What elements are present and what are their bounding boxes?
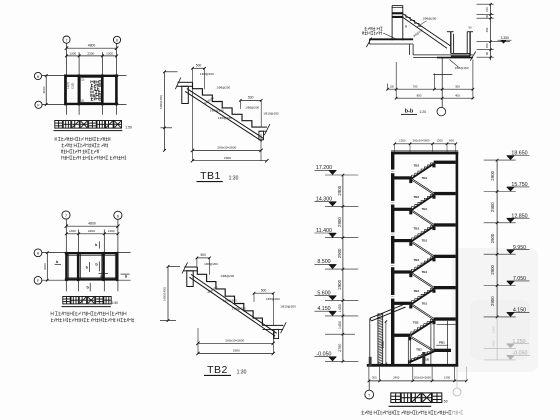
elevation marker 8.500 (left) bbox=[325, 268, 358, 270]
svg-text:4.150: 4.150 bbox=[513, 308, 526, 314]
b-b bottom dimension line 1 bbox=[388, 88, 473, 90]
floor slab level 5 bbox=[394, 302, 412, 305]
stair flight up (cut) level 1 bbox=[411, 163, 434, 180]
b-b right dimension chain bbox=[490, 4, 492, 61]
svg-text:260x10=2600: 260x10=2600 bbox=[217, 146, 236, 150]
svg-text:50: 50 bbox=[485, 14, 489, 17]
floor edge beam level 1 bbox=[409, 180, 412, 184]
grid line inner vertical a bbox=[78, 52, 80, 115]
TB2 bottom dimension 260x10=2600 bbox=[198, 342, 273, 344]
elevation marker 9.950 (right) bbox=[484, 253, 516, 255]
rebar label block (top plan middle cell, rotated text) bbox=[91, 80, 101, 83]
landing edge beam level 1 bbox=[432, 164, 435, 168]
svg-text:500: 500 bbox=[200, 253, 206, 257]
grid bubble H (top plan) bbox=[34, 72, 41, 79]
TB1 top landing slab bbox=[178, 81, 193, 83]
svg-text:2900: 2900 bbox=[381, 341, 385, 348]
TB1 top hanging beam bbox=[182, 86, 189, 103]
left wall window gap bbox=[391, 264, 395, 268]
grid inner vertical a (bottom plan) bbox=[78, 230, 80, 292]
svg-text:1Φ8@200: 1Φ8@200 bbox=[200, 72, 214, 76]
elevation marker 1.250 (right, faint) bbox=[484, 347, 516, 349]
dimension 4800 (bottom plan) bbox=[66, 225, 118, 227]
svg-text:260x10=2600: 260x10=2600 bbox=[413, 139, 430, 143]
TB1 left vertical dimension bbox=[164, 72, 166, 151]
b-b gutter channel bbox=[450, 32, 452, 54]
svg-text:6: 6 bbox=[117, 214, 119, 218]
grid bubble 7 (top plan, axis 7) bbox=[63, 36, 70, 43]
notes under bottom plan (2 lines) bbox=[51, 312, 126, 316]
svg-text:2900: 2900 bbox=[337, 248, 342, 258]
b-b lower slab bbox=[413, 54, 473, 56]
svg-text:H: H bbox=[37, 75, 40, 79]
half landing slab level 5 bbox=[434, 286, 456, 289]
svg-text:1300: 1300 bbox=[69, 51, 76, 55]
TB2 top break line bbox=[182, 262, 188, 273]
stair well opening (top plan inner rect) bbox=[80, 78, 102, 103]
svg-text:1B: 1B bbox=[425, 357, 429, 361]
svg-text:1:50: 1:50 bbox=[125, 126, 132, 130]
beam column strip 1 (top plan) bbox=[64, 74, 67, 105]
svg-text:1450: 1450 bbox=[491, 326, 495, 333]
dimension 3000 (bottom plan left) bbox=[46, 253, 48, 281]
svg-text:TB1: TB1 bbox=[422, 207, 428, 211]
svg-text:1Φ8@200: 1Φ8@200 bbox=[220, 274, 234, 278]
elevation marker 15.750 (right) bbox=[484, 191, 516, 193]
b-b grid bubble bbox=[437, 107, 446, 116]
stair flight down (far) level 5 bbox=[412, 304, 435, 319]
b-b wall under roof slab bbox=[409, 44, 411, 55]
svg-text:3000: 3000 bbox=[43, 263, 47, 270]
column under landing 1.250 (hatched) bbox=[422, 352, 425, 364]
stair flight down (far) level 3 bbox=[412, 241, 435, 256]
svg-text:H: H bbox=[37, 252, 40, 256]
svg-text:3.350: 3.350 bbox=[501, 36, 509, 40]
svg-text:1Φ8@150: 1Φ8@150 bbox=[455, 66, 469, 70]
beam column strip 2 (top plan) bbox=[78, 74, 81, 105]
scan artifact wash (lower right) bbox=[452, 248, 538, 372]
porch column (hatched) bbox=[378, 314, 383, 364]
left wall window gap bbox=[391, 170, 395, 174]
floor edge beam level 3 bbox=[409, 242, 412, 246]
wall inner line bottom (bottom plan) bbox=[67, 277, 118, 279]
svg-text:1450(1450): 1450(1450) bbox=[163, 287, 167, 301]
floor edge beam level 2 bbox=[409, 211, 412, 215]
svg-text:TB1: TB1 bbox=[416, 348, 422, 352]
grid line H horizontal (bottom plan) bbox=[42, 252, 131, 254]
svg-text:b-b: b-b bbox=[405, 109, 414, 115]
TB2 bottom break line bbox=[281, 322, 287, 333]
svg-text:1Φ8@200: 1Φ8@200 bbox=[266, 297, 280, 301]
grid line axis-7 vertical (bottom plan) bbox=[65, 219, 67, 291]
svg-text:TB2: TB2 bbox=[413, 321, 419, 325]
window sill line right wall bbox=[437, 323, 456, 325]
svg-text:1:20: 1:20 bbox=[419, 110, 426, 114]
svg-text:-0.050: -0.050 bbox=[512, 351, 527, 357]
svg-text:1Φ10@200: 1Φ10@200 bbox=[263, 112, 279, 116]
floor edge beam level 4 bbox=[409, 274, 412, 278]
svg-text:4800: 4800 bbox=[88, 222, 96, 226]
section left wall bbox=[391, 152, 394, 367]
floor slab level 1 bbox=[394, 176, 412, 179]
TB2 stair steps outline bbox=[197, 267, 262, 325]
beam column strip 3 (top plan) bbox=[101, 74, 104, 105]
b-b parapet column bbox=[391, 6, 393, 41]
svg-text:TB2: TB2 bbox=[413, 258, 419, 262]
svg-text:500: 500 bbox=[248, 96, 254, 100]
floor slab level 2 bbox=[394, 208, 412, 211]
svg-text:80: 80 bbox=[485, 52, 489, 55]
elevation marker 5.600 (left) bbox=[325, 299, 358, 301]
svg-text:7: 7 bbox=[368, 394, 370, 398]
TB2 bottom landing slab bbox=[262, 324, 283, 326]
elevation marker 12.850 (right) bbox=[484, 222, 516, 224]
svg-text:300: 300 bbox=[372, 376, 377, 380]
ground floor slab bbox=[367, 364, 458, 367]
dimension 3000 (top plan left) bbox=[45, 76, 47, 105]
grid line axis-7 vertical bbox=[65, 43, 67, 115]
svg-text:1:50: 1:50 bbox=[112, 301, 119, 305]
svg-text:(2): (2) bbox=[81, 77, 84, 81]
floor edge beam level 5 bbox=[409, 305, 412, 309]
svg-text:800: 800 bbox=[449, 139, 454, 143]
TB2 right dimension 500 bbox=[254, 292, 273, 294]
grid inner vertical b (bottom plan) bbox=[103, 230, 105, 292]
landing edge beam level 5 bbox=[432, 289, 435, 293]
section right wall bbox=[456, 152, 459, 367]
TB1 top break line bbox=[175, 78, 181, 90]
svg-text:300: 300 bbox=[455, 84, 460, 88]
half landing slab level 3 bbox=[434, 223, 456, 226]
svg-text:2900: 2900 bbox=[490, 170, 495, 180]
svg-text:260x10=2600: 260x10=2600 bbox=[414, 376, 431, 380]
svg-text:TB2: TB2 bbox=[413, 226, 419, 230]
TB2 left vertical dimension bbox=[167, 267, 169, 321]
elevation marker 7.050 (right) bbox=[484, 285, 516, 287]
svg-text:1300: 1300 bbox=[436, 139, 443, 143]
svg-text:TB1: TB1 bbox=[200, 170, 221, 182]
TB2 top dimension 500 bbox=[197, 257, 210, 259]
svg-text:1300: 1300 bbox=[106, 51, 113, 55]
stair flight up (cut) level 3 bbox=[411, 225, 434, 242]
svg-text:500: 500 bbox=[261, 289, 267, 293]
elevation marker 17.200 (left) bbox=[325, 174, 358, 176]
svg-text:7.050: 7.050 bbox=[513, 276, 526, 282]
svg-text:450: 450 bbox=[485, 27, 489, 32]
svg-text:2900: 2900 bbox=[490, 233, 495, 243]
TB1 bottom hanging beam bbox=[259, 131, 264, 140]
half landing slab level 1 bbox=[434, 161, 456, 164]
half landing slab level 4 bbox=[434, 255, 456, 258]
wall inner vertical 1 (bottom plan) bbox=[68, 253, 70, 279]
TB2 top hanging beam bbox=[187, 271, 193, 287]
grid bubble F (top plan) bbox=[35, 101, 42, 108]
grid bubble 7 (bottom plan) bbox=[62, 211, 70, 219]
svg-text:400: 400 bbox=[455, 93, 460, 97]
section top dimension chain bbox=[395, 143, 456, 145]
svg-text:1450: 1450 bbox=[338, 321, 342, 329]
svg-text:TB1: TB1 bbox=[422, 270, 428, 274]
svg-text:7: 7 bbox=[66, 38, 68, 42]
wall inner vertical 4 (bottom plan) bbox=[114, 253, 116, 279]
stair flight ground to 1.250 (cut) bbox=[408, 350, 434, 364]
beam column strip 4 (top plan) bbox=[115, 74, 118, 105]
grid bubble 6 (bottom plan) bbox=[114, 211, 122, 219]
svg-text:2900: 2900 bbox=[490, 296, 495, 306]
TB2 bottom dimension total 2900 bbox=[198, 353, 273, 355]
svg-text:2900: 2900 bbox=[233, 349, 240, 353]
slab column strip 2 (bottom plan) bbox=[77, 252, 80, 281]
landing slab 4.150 bbox=[434, 317, 456, 320]
svg-text:L1(2): L1(2) bbox=[66, 82, 70, 89]
landing edge beam level 2 bbox=[432, 195, 435, 199]
stair flight up (cut) level 2 bbox=[411, 194, 434, 211]
section grid bubble bottom left bbox=[368, 381, 370, 390]
grid line F horizontal (bottom plan) bbox=[42, 279, 131, 281]
svg-text:TB1: TB1 bbox=[422, 176, 428, 180]
grid bubble 6 (top plan, axis 6) bbox=[113, 36, 120, 43]
TB1 bottom break line bbox=[264, 124, 270, 135]
beam KL bottom (top plan thick frame) bbox=[64, 103, 118, 105]
porch height dimension 2900 bbox=[385, 322, 387, 364]
svg-text:2750: 2750 bbox=[338, 344, 342, 352]
left wall window gap bbox=[391, 295, 395, 299]
section grid bubble bottom right (faint) bbox=[456, 367, 458, 388]
svg-text:90: 90 bbox=[469, 25, 472, 29]
svg-text:260x10=2600: 260x10=2600 bbox=[225, 339, 244, 343]
b-b roof slab left bbox=[369, 38, 413, 40]
stair flight up (cut) level 5 bbox=[411, 288, 434, 305]
svg-text:1300: 1300 bbox=[69, 229, 76, 233]
svg-text:1:30: 1:30 bbox=[229, 175, 239, 181]
TB1 bottom dimension 260x10=2600 bbox=[193, 149, 262, 151]
grid line H horizontal bbox=[42, 75, 127, 77]
svg-text:2900: 2900 bbox=[337, 185, 342, 195]
porch left edge column bbox=[369, 319, 371, 367]
svg-text:1Φ8@200: 1Φ8@200 bbox=[218, 116, 232, 120]
b-b bottom extension lines bbox=[395, 62, 397, 98]
svg-text:2900: 2900 bbox=[337, 217, 342, 227]
svg-text:700: 700 bbox=[413, 84, 418, 88]
svg-text:1450: 1450 bbox=[491, 340, 495, 347]
wall inner vertical 2 (bottom plan) bbox=[79, 253, 81, 279]
b-b sloped stair slab (double line) bbox=[403, 14, 451, 46]
b-b parapet hatch band 1 bbox=[392, 12, 403, 14]
beam KL top (top plan thick frame) bbox=[64, 75, 118, 77]
stair flight down (far) level 2 bbox=[412, 210, 435, 225]
stair flight up (cut) level 4 bbox=[411, 257, 434, 274]
grid bubble H (bottom plan) bbox=[34, 249, 42, 257]
title: bottom plan (fake CJK strokes) bbox=[63, 297, 70, 304]
svg-text:1450(1450): 1450(1450) bbox=[159, 95, 163, 109]
TB1 sloped soffit slab (double line) bbox=[187, 89, 264, 139]
elevation marker 14.300 (left) bbox=[325, 205, 358, 207]
grid line F horizontal bbox=[42, 104, 126, 106]
notes under top plan (4 lines) bbox=[55, 137, 110, 141]
svg-text:(2): (2) bbox=[81, 99, 84, 103]
svg-text:TB2: TB2 bbox=[207, 364, 228, 376]
svg-text:40: 40 bbox=[404, 24, 408, 28]
landing slab 1.250 bbox=[434, 349, 451, 352]
dimension 4800 (top plan overall) bbox=[66, 47, 116, 49]
grid line inner vertical b bbox=[102, 52, 104, 115]
left elevation dimension line bbox=[342, 175, 344, 361]
b-b bottom dimension line 2 bbox=[396, 97, 473, 99]
TB1 stair steps outline bbox=[193, 82, 262, 127]
svg-text:1Φ8@200: 1Φ8@200 bbox=[223, 298, 237, 302]
TB2 sloped soffit slab (double line) bbox=[191, 274, 277, 333]
b-b parapet hatch band 2 bbox=[392, 16, 403, 18]
dimension chain 1300/2200/1300 (top plan) bbox=[66, 55, 116, 57]
TB2 bottom hanging beam bbox=[274, 329, 279, 338]
svg-text:3000: 3000 bbox=[42, 86, 46, 93]
svg-text:2900: 2900 bbox=[490, 264, 495, 274]
elevation marker 11.400 (left) bbox=[325, 237, 358, 239]
stair flight 2.700 to 4.150 (cut) bbox=[411, 319, 434, 336]
stair flight 2.700 to 1.250 (far) bbox=[411, 336, 435, 351]
section title (fake CJK strokes) bbox=[391, 393, 401, 403]
grid line axis-6 vertical (bottom plan) bbox=[117, 220, 119, 292]
wall inner vertical 3 (bottom plan) bbox=[101, 253, 103, 279]
svg-text:1Φ8@200: 1Φ8@200 bbox=[204, 262, 218, 266]
svg-text:7: 7 bbox=[65, 214, 67, 218]
walls under landing 4.150 bbox=[430, 321, 432, 364]
slab column strip 3 (bottom plan) bbox=[102, 252, 105, 281]
stair flight down (far) level 1 bbox=[412, 178, 435, 193]
dimension chain 1300/2200/1300 (bottom plan) bbox=[66, 233, 118, 235]
svg-text:1450: 1450 bbox=[338, 304, 342, 312]
b-b wall axis crosshair bbox=[433, 74, 452, 76]
b-b lower slab break line bbox=[470, 52, 475, 61]
svg-text:150: 150 bbox=[485, 7, 489, 12]
svg-text:1Φ8@200: 1Φ8@200 bbox=[245, 105, 259, 109]
svg-text:800: 800 bbox=[417, 93, 422, 97]
floor slab level 3 bbox=[394, 239, 412, 242]
svg-text:2900: 2900 bbox=[490, 202, 495, 212]
half landing slab level 2 bbox=[434, 192, 456, 195]
svg-text:1Φ8@200: 1Φ8@200 bbox=[422, 17, 436, 21]
svg-text:2200: 2200 bbox=[88, 229, 95, 233]
slab column strip 4 (bottom plan) bbox=[116, 252, 119, 281]
left wall window gap bbox=[391, 201, 395, 205]
svg-text:1300: 1300 bbox=[399, 139, 406, 143]
grid bubble F (bottom plan) bbox=[34, 276, 42, 284]
TB1 bottom dimension total 2900 bbox=[193, 160, 267, 162]
b-b roof slab break line bbox=[366, 37, 371, 47]
wall inner line top (bottom plan) bbox=[67, 254, 118, 256]
svg-text:TB2: TB2 bbox=[413, 195, 419, 199]
slab beam top (bottom plan thick frame) bbox=[65, 252, 119, 254]
svg-text:PB1: PB1 bbox=[439, 341, 445, 345]
svg-text:L2(2): L2(2) bbox=[71, 83, 75, 90]
svg-text:2900: 2900 bbox=[337, 279, 342, 289]
left wall window gap bbox=[391, 232, 395, 236]
section bottom extension lines bbox=[368, 367, 370, 382]
svg-text:2900: 2900 bbox=[224, 156, 231, 160]
porch canopy sloped slab bbox=[370, 304, 404, 318]
elevation tick 2.700 (left, unlabelled) bbox=[325, 333, 355, 335]
svg-text:1Φ8@200: 1Φ8@200 bbox=[210, 108, 224, 112]
section note line bbox=[362, 411, 452, 415]
b-b left leader labels bbox=[365, 27, 383, 30]
slab beam bottom (bottom plan thick frame) bbox=[65, 278, 119, 280]
svg-text:2400: 2400 bbox=[393, 376, 400, 380]
svg-text:4800: 4800 bbox=[88, 44, 96, 48]
elevation marker -0.050 (right, faint) bbox=[484, 359, 516, 361]
landing edge beam level 3 bbox=[432, 227, 435, 231]
TB2 top landing slab bbox=[184, 266, 197, 268]
svg-text:2200: 2200 bbox=[87, 51, 94, 55]
svg-text:100: 100 bbox=[390, 84, 395, 88]
TB1 top dimension 500 bbox=[193, 67, 205, 69]
svg-text:1Φ8@200: 1Φ8@200 bbox=[216, 85, 230, 89]
elevation marker 4.150 (left) bbox=[325, 315, 358, 317]
svg-text:1Φ8@200: 1Φ8@200 bbox=[232, 307, 246, 311]
svg-text:1Φ10@200: 1Φ10@200 bbox=[280, 305, 296, 309]
svg-text:TB1: TB1 bbox=[422, 239, 428, 243]
stair flight down (far) level 4 bbox=[412, 272, 435, 287]
wall under landing 2.700 bbox=[407, 340, 409, 364]
elevation marker 4.150 (right) bbox=[484, 316, 516, 318]
svg-text:TB2: TB2 bbox=[413, 289, 419, 293]
slab column strip 1 (bottom plan) bbox=[65, 252, 68, 281]
section bottom dimension chain bbox=[369, 380, 467, 382]
TB1 right dimension 500 bbox=[240, 99, 261, 101]
left half landing 2.700 bbox=[394, 334, 410, 337]
svg-text:1300: 1300 bbox=[108, 229, 115, 233]
section roof slab bbox=[391, 152, 458, 155]
svg-text:250: 250 bbox=[485, 43, 489, 48]
svg-text:1:30: 1:30 bbox=[237, 369, 247, 375]
right elevation dimension line bbox=[496, 160, 498, 317]
svg-text:500: 500 bbox=[196, 64, 202, 68]
b-b wall axis below bbox=[441, 58, 443, 108]
elevation marker -0.050 (left) bbox=[325, 360, 358, 362]
svg-text:6: 6 bbox=[116, 39, 118, 43]
svg-text:1300: 1300 bbox=[444, 376, 451, 380]
b-b steps on slab bbox=[406, 14, 423, 26]
floor slab level 4 bbox=[394, 270, 412, 273]
TB1 bottom landing slab bbox=[262, 126, 267, 128]
svg-text:TB1: TB1 bbox=[422, 301, 428, 305]
svg-text:TB2: TB2 bbox=[413, 164, 419, 168]
grid line axis-6 vertical bbox=[116, 44, 118, 115]
title: top plan (fake CJK strokes) bbox=[55, 121, 63, 129]
landing edge beam level 4 bbox=[432, 258, 435, 262]
elevation marker 18.650 (right) bbox=[484, 159, 516, 161]
svg-text:1:50: 1:50 bbox=[441, 400, 448, 404]
